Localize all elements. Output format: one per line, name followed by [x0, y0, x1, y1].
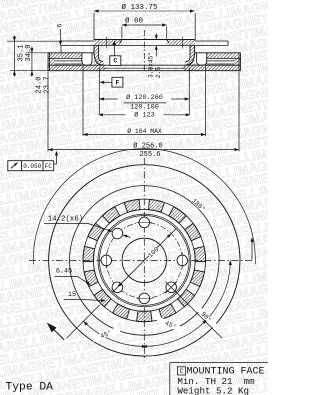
dimension D123 [98, 110, 190, 119]
dimension D133.75 [94, 3, 195, 40]
svg-text:2.5: 2.5 [155, 67, 162, 78]
title block [170, 363, 268, 395]
dimension D60 [122, 16, 167, 38]
svg-text:255.6: 255.6 [139, 151, 160, 159]
svg-text:Ø 164 MAX: Ø 164 MAX [127, 127, 162, 135]
svg-text:Ø 60: Ø 60 [125, 16, 144, 25]
svg-text:15: 15 [68, 291, 76, 299]
runout tolerance frame [8, 151, 58, 171]
phantom hole position [165, 281, 177, 293]
datum F label [100, 77, 123, 87]
svg-text:Ø 133.75: Ø 133.75 [121, 3, 158, 12]
bolt circle [106, 222, 182, 298]
section white openings [82, 53, 207, 65]
svg-text:C: C [180, 368, 184, 375]
disc outer circle [49, 165, 240, 356]
label 6.45 [55, 268, 91, 286]
section outline [48, 37, 241, 71]
dimension D120.260/120.100 [99, 68, 189, 115]
rotation direction arrow [47, 323, 64, 340]
svg-text:Ø 120.260: Ø 120.260 [126, 93, 163, 102]
datum C label [110, 40, 121, 65]
svg-text:120.100: 120.100 [130, 104, 159, 112]
ventilation slots ring [83, 199, 206, 321]
svg-text:3.0x45°: 3.0x45° [147, 52, 154, 78]
chamfer note 3.0x45 / 2.5 [147, 34, 162, 79]
svg-text:23.7: 23.7 [43, 76, 51, 93]
dimension 180deg [33, 149, 255, 265]
centerlines [29, 30, 252, 361]
svg-text:14.2(x6): 14.2(x6) [48, 216, 83, 224]
svg-text:6: 6 [57, 23, 64, 27]
circle D120 [99, 216, 189, 306]
dimension 6 [57, 23, 64, 52]
bolt holes D14.2 x6 [101, 217, 188, 304]
dimension D100 [113, 229, 177, 293]
svg-text:FC: FC [45, 163, 53, 170]
dimension 24.0/23.7 [26, 47, 51, 94]
svg-text:Ø 123: Ø 123 [134, 110, 154, 119]
section hatch fills [48, 40, 241, 71]
label 15 [64, 291, 106, 302]
center bore circle [122, 238, 166, 282]
slot ring outer circle [83, 199, 206, 322]
dimension D164 MAX [83, 66, 206, 136]
angular dimensions 45/45/90 [84, 260, 232, 348]
slot ring inner circle [93, 210, 195, 312]
dimension D256.0/255.6 [48, 72, 239, 159]
svg-text:Type DA: Type DA [6, 381, 54, 393]
svg-text:F: F [115, 79, 119, 86]
friction band inner circle [70, 186, 220, 336]
angle reference lines [67, 282, 223, 339]
type label [6, 381, 54, 393]
circle D123 [98, 214, 191, 307]
svg-text:0.050: 0.050 [23, 163, 41, 170]
svg-text:C: C [113, 58, 117, 65]
svg-text:6.45: 6.45 [56, 268, 72, 276]
dimension 35.1/34.9 [7, 36, 61, 77]
svg-text:Weight 5.2 Kg: Weight 5.2 Kg [177, 386, 249, 395]
label 14.2(x6) [44, 216, 131, 238]
